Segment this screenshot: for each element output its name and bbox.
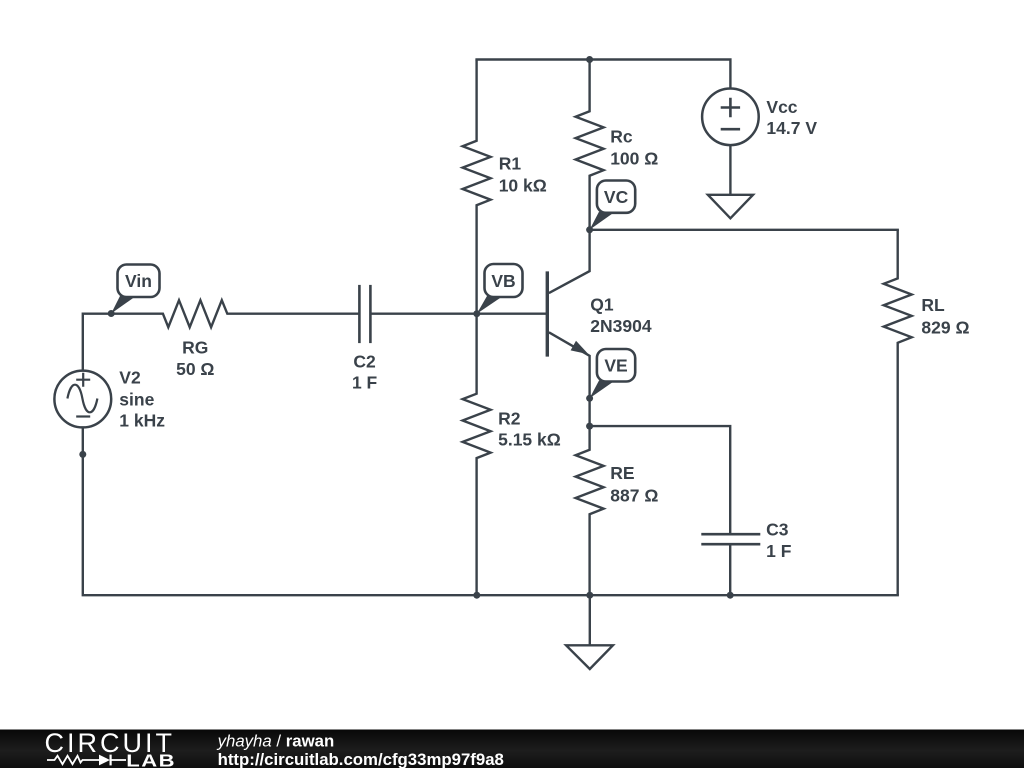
svg-text:RG: RG bbox=[182, 338, 208, 358]
svg-text:10 kΩ: 10 kΩ bbox=[499, 176, 547, 196]
svg-text:100 Ω: 100 Ω bbox=[610, 148, 658, 168]
svg-text:2N3904: 2N3904 bbox=[590, 316, 652, 336]
svg-text:sine: sine bbox=[119, 390, 154, 410]
svg-text:14.7 V: 14.7 V bbox=[766, 118, 817, 138]
svg-text:RL: RL bbox=[921, 295, 945, 315]
svg-text:Rc: Rc bbox=[610, 126, 633, 146]
svg-text:829 Ω: 829 Ω bbox=[921, 317, 969, 337]
svg-text:V2: V2 bbox=[119, 368, 141, 388]
svg-text:1 F: 1 F bbox=[766, 541, 792, 561]
svg-text:50 Ω: 50 Ω bbox=[176, 359, 214, 379]
svg-text:Vcc: Vcc bbox=[766, 97, 797, 117]
svg-text:yhayha / rawan: yhayha / rawan bbox=[217, 732, 335, 751]
svg-text:C3: C3 bbox=[766, 519, 789, 539]
svg-text:1 kHz: 1 kHz bbox=[119, 411, 165, 431]
svg-text:R1: R1 bbox=[499, 153, 522, 173]
svg-text:VB: VB bbox=[491, 271, 515, 291]
svg-text:1 F: 1 F bbox=[352, 373, 378, 393]
svg-text:5.15 kΩ: 5.15 kΩ bbox=[498, 430, 561, 450]
svg-text:Q1: Q1 bbox=[590, 295, 614, 315]
svg-text:R2: R2 bbox=[498, 409, 521, 429]
svg-text:VC: VC bbox=[604, 187, 629, 207]
svg-text:C2: C2 bbox=[353, 351, 376, 371]
svg-text:LAB: LAB bbox=[126, 752, 176, 768]
svg-text:VE: VE bbox=[604, 356, 627, 376]
svg-text:Vin: Vin bbox=[125, 271, 152, 291]
svg-text:RE: RE bbox=[610, 463, 634, 483]
svg-text:http://circuitlab.com/cfg33mp9: http://circuitlab.com/cfg33mp97f9a8 bbox=[218, 750, 504, 768]
svg-text:887 Ω: 887 Ω bbox=[610, 485, 658, 505]
